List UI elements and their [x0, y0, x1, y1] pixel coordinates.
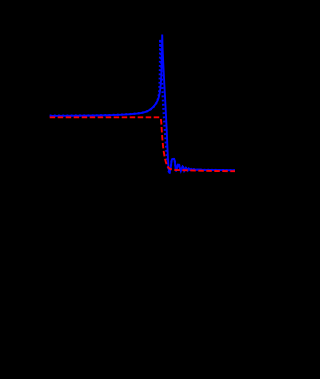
blue marker dashes on tail [169, 159, 235, 173]
red dashed curve [50, 117, 235, 171]
blue dotted curve (data points) [50, 39, 169, 172]
blue solid curve (theory) [50, 35, 235, 173]
